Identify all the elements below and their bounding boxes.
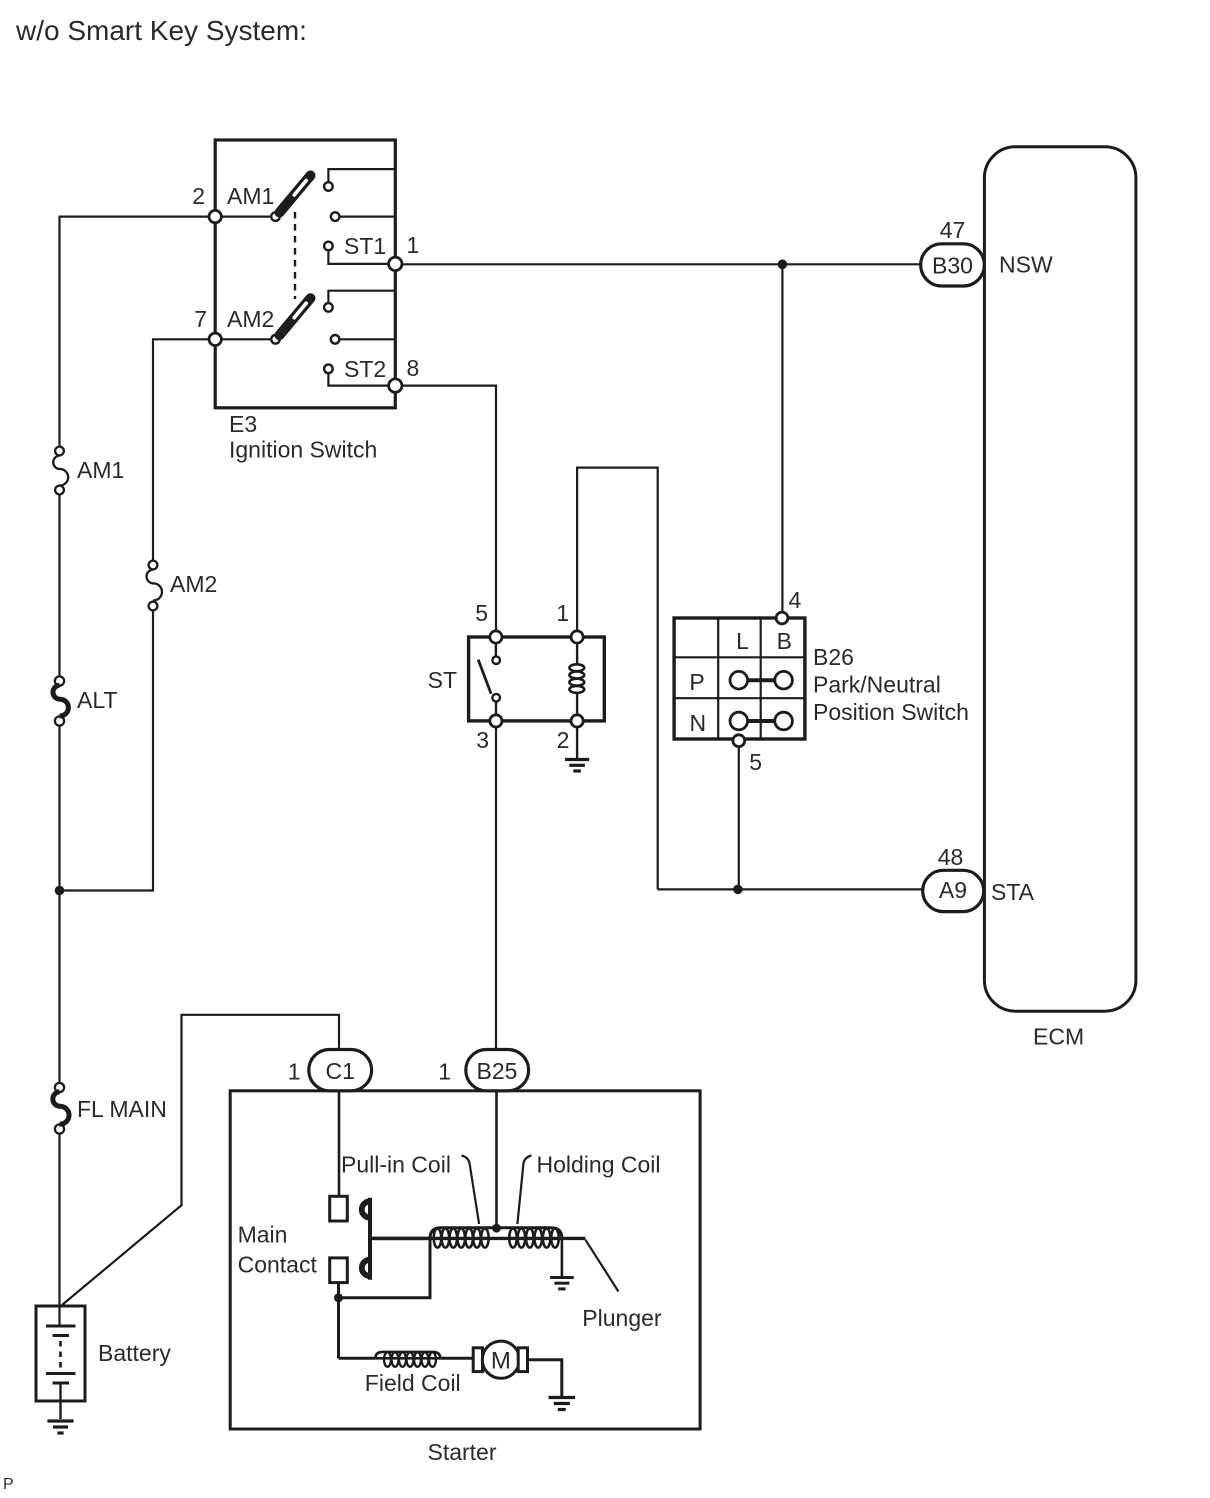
svg-text:ST2: ST2: [344, 356, 386, 382]
fixed contact ST1: [324, 242, 333, 251]
relay coil loops: [569, 664, 584, 693]
pull-in coil loops: [434, 1228, 489, 1247]
svg-text:Battery: Battery: [98, 1340, 171, 1366]
wire: FL MAIN to battery: [58, 1133, 60, 1326]
main contact fixed square top: [330, 1196, 348, 1221]
node 8 terminal: [389, 379, 402, 392]
relay switch stub pin3: [495, 702, 497, 715]
junction: lower contact / pull-in return: [334, 1293, 343, 1302]
wire: contact bar to coil line: [370, 1237, 430, 1240]
relay labels: [428, 600, 570, 753]
field coil envelope: [375, 1352, 440, 1358]
B26 box: [674, 618, 805, 739]
wire: motor to ground: [528, 1360, 562, 1397]
main contact fixed square bottom: [330, 1258, 348, 1283]
svg-text:w/o Smart Key System:: w/o Smart Key System:: [15, 15, 307, 46]
wire: node2 to left rail: [60, 217, 216, 447]
node 1 terminal: [389, 257, 402, 270]
AM1 switch blade: [280, 176, 311, 213]
relay pin 2: [571, 715, 583, 727]
main contact upper jaw arc: [362, 1201, 370, 1217]
B26 N-row contact right: [775, 712, 793, 730]
B26 P-row contact right: [775, 671, 793, 689]
motor brush left: [473, 1348, 482, 1372]
battery box: [36, 1306, 85, 1401]
relay pin 5: [490, 631, 502, 643]
svg-text:Starter: Starter: [427, 1439, 496, 1465]
relay coil stub bottom: [576, 692, 578, 715]
fusible link ALT: [53, 676, 68, 725]
wire: lower fixed contact b1 L-link: [328, 291, 395, 303]
AM1 moving contact pivot: [271, 212, 280, 221]
B26 grid row line 2: [674, 697, 805, 699]
wire: pull-in coil lower loop: [339, 1238, 431, 1297]
B26 P-row contact left: [730, 671, 748, 689]
svg-text:7: 7: [194, 306, 207, 332]
wire: ST relay pin1 up-over-down to STA rail: [577, 468, 658, 890]
wire: C1 drop to main contact: [338, 1091, 341, 1197]
svg-text:P: P: [3, 1476, 14, 1493]
motor brush right: [518, 1348, 527, 1372]
starter box: [230, 1091, 700, 1429]
ignition switch E3 box: [215, 140, 395, 408]
fixed contact ST2: [324, 365, 333, 374]
wire: field coil to motor: [440, 1357, 474, 1360]
junction: NSW branch to B26 pin4: [778, 260, 788, 270]
solenoid envelope: [430, 1228, 562, 1239]
svg-text:1: 1: [407, 232, 420, 258]
wire: node2 to AM1 contact: [215, 216, 271, 218]
B26 N-row contact left: [730, 712, 748, 730]
fusible link FL MAIN: [53, 1083, 69, 1134]
ground under holding coil: [550, 1278, 574, 1289]
svg-text:P: P: [689, 669, 704, 695]
junction: B25 drop on solenoid: [492, 1224, 501, 1233]
svg-text:Plunger: Plunger: [582, 1305, 662, 1331]
labels: ignition switch: [192, 183, 419, 463]
svg-text:C1: C1: [325, 1058, 354, 1084]
svg-text:1: 1: [438, 1058, 451, 1084]
svg-text:B30: B30: [932, 253, 973, 279]
wire: upper fixed contact a1 L-link: [328, 169, 395, 182]
svg-text:ST1: ST1: [344, 233, 386, 259]
svg-text:5: 5: [749, 749, 762, 775]
svg-text:L: L: [736, 628, 749, 654]
relay switch upper contact: [492, 656, 500, 664]
wire: ST2 contact to pin8: [328, 373, 390, 386]
relay pin 3: [490, 715, 502, 727]
solenoid core line: [370, 1237, 585, 1240]
motor M body: [482, 1341, 519, 1378]
svg-text:1: 1: [556, 600, 569, 626]
fixed contact b2: [331, 335, 340, 344]
svg-text:Pull-in Coil: Pull-in Coil: [341, 1151, 451, 1177]
connector C1: [309, 1050, 372, 1091]
svg-text:ST: ST: [428, 667, 457, 693]
B26 pin 5 terminal: [733, 735, 745, 747]
wire: B25 drop to coils: [495, 1091, 498, 1228]
svg-text:FL MAIN: FL MAIN: [77, 1096, 167, 1122]
B26 P-row contact bar: [748, 678, 775, 682]
relay ST box: [469, 637, 605, 721]
svg-text:Contact: Contact: [238, 1252, 318, 1278]
svg-text:Holding Coil: Holding Coil: [537, 1151, 661, 1177]
svg-text:E3: E3: [229, 411, 257, 437]
wire: bottom square to junction: [337, 1283, 340, 1298]
holding coil ground stem: [561, 1238, 564, 1276]
battery plate 1 long: [46, 1325, 76, 1328]
AM2 switch blade: [280, 298, 311, 335]
wire: B26 pin5 down to STA junction: [738, 747, 740, 890]
ECM body: [984, 147, 1136, 1011]
svg-text:4: 4: [789, 587, 802, 613]
wire: branch down to B26 pin4: [781, 264, 783, 612]
svg-text:Main: Main: [238, 1222, 288, 1248]
svg-text:B25: B25: [477, 1058, 518, 1084]
plunger pointer line: [585, 1240, 618, 1292]
svg-text:AM1: AM1: [227, 183, 274, 209]
relay switch stub pin5: [495, 643, 497, 656]
starter labels: [238, 1151, 662, 1465]
ground under motor: [549, 1398, 576, 1410]
wire: fixed contact b2 link: [339, 338, 395, 340]
mechanical link dashed: [294, 212, 296, 299]
svg-text:Position Switch: Position Switch: [813, 699, 969, 725]
svg-text:M: M: [491, 1348, 511, 1375]
wire: ALT fuse to FL MAIN: [58, 725, 60, 1083]
svg-text:5: 5: [475, 600, 488, 626]
wire: fixed contact a2 link: [339, 216, 395, 218]
B26 labels: [689, 587, 969, 775]
connector A9: [923, 870, 984, 911]
ground under battery: [47, 1421, 73, 1433]
main contact lower jaw arc: [362, 1260, 370, 1276]
svg-text:ALT: ALT: [77, 687, 117, 713]
connector B25: [466, 1050, 529, 1091]
svg-text:47: 47: [940, 217, 966, 243]
svg-text:AM1: AM1: [77, 457, 124, 483]
ground under relay pin2: [565, 760, 589, 772]
B26 N-row contact bar: [748, 719, 775, 723]
wire: node7 to AM2 contact: [215, 338, 271, 340]
wire: STA horizontal to A9: [658, 888, 923, 890]
relay pin2 ground stem: [576, 727, 578, 758]
wire: node7 to AM2 rail: [153, 339, 215, 561]
B26 pin 4 terminal: [776, 612, 788, 624]
wire: junction down to field coil: [337, 1298, 340, 1359]
main contact moving bar: [368, 1198, 372, 1280]
B26 grid row line 1: [674, 656, 805, 658]
wire: NSW net pin1 to B30: [401, 263, 921, 265]
holding coil pointer: [517, 1156, 531, 1225]
svg-text:48: 48: [938, 844, 964, 870]
junction: left rail / AM2 rail: [55, 886, 65, 896]
svg-text:Park/Neutral: Park/Neutral: [813, 672, 941, 698]
fixed contact a1: [324, 182, 333, 191]
wire: ST1 contact to pin1: [328, 250, 390, 264]
connector B30: [921, 244, 985, 286]
battery plate 4 short: [53, 1382, 70, 1385]
node 2 terminal: [209, 210, 221, 222]
pull-in coil pointer: [462, 1156, 480, 1225]
relay pin 1: [571, 631, 583, 643]
svg-text:N: N: [689, 710, 706, 736]
wire: left rail AM1 fuse to ALT fuse: [58, 495, 60, 677]
svg-text:1: 1: [288, 1058, 301, 1084]
wire: C1 branch from battery: [62, 1015, 339, 1305]
svg-text:3: 3: [476, 727, 489, 753]
wire: ST relay pin3 down to B25: [495, 727, 497, 1050]
battery negative stem: [59, 1383, 61, 1419]
relay switch blade: [478, 660, 491, 694]
svg-text:B26: B26: [813, 644, 854, 670]
battery plate 3 long: [46, 1372, 76, 1375]
svg-text:Field Coil: Field Coil: [365, 1370, 461, 1396]
battery plate 2 short: [53, 1334, 70, 1337]
svg-text:2: 2: [192, 183, 205, 209]
svg-text:8: 8: [407, 355, 420, 381]
svg-text:AM2: AM2: [227, 306, 274, 332]
holding coil loops: [509, 1228, 559, 1247]
fixed contact b1: [324, 303, 333, 312]
field coil line left: [339, 1357, 376, 1360]
node 7 terminal: [209, 333, 221, 345]
svg-text:Ignition Switch: Ignition Switch: [229, 437, 377, 463]
relay switch lower contact: [492, 694, 500, 702]
svg-text:AM2: AM2: [170, 571, 217, 597]
svg-text:B: B: [777, 628, 792, 654]
fuse AM1: [53, 447, 68, 495]
AM2 moving contact pivot: [271, 335, 280, 344]
wire: ST2 net pin8 to ST relay pin5: [401, 386, 496, 631]
svg-text:2: 2: [557, 727, 570, 753]
battery cells dashed: [59, 1341, 62, 1370]
field coil core line: [375, 1357, 440, 1360]
B26 grid column line 2: [760, 618, 762, 739]
svg-text:A9: A9: [939, 877, 967, 903]
svg-text:ECM: ECM: [1033, 1024, 1084, 1050]
wire: AM2 rail down to junction: [60, 610, 154, 891]
B26 grid column line 1: [717, 618, 719, 739]
field coil loops: [384, 1352, 436, 1367]
svg-text:STA: STA: [991, 879, 1035, 905]
relay coil stub top: [576, 643, 578, 665]
fuse AM2: [147, 561, 162, 611]
svg-text:NSW: NSW: [999, 252, 1053, 278]
junction: STA rail / B26 pin5: [733, 885, 743, 895]
fixed contact a2: [331, 212, 340, 221]
